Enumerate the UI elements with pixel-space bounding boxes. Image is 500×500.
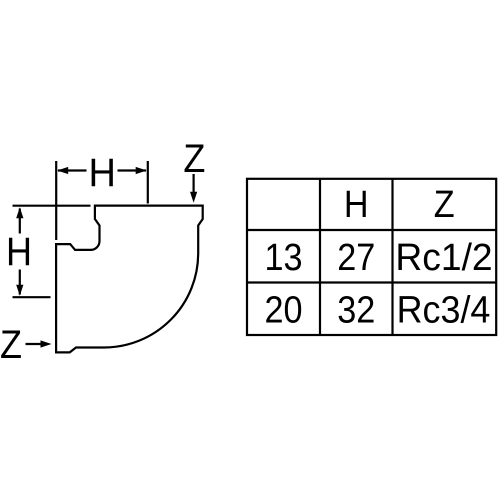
leader line of Z bottom (26, 343, 43, 345)
extension line top face level (horizontal, y=205.7) (13, 205, 91, 207)
arrowhead H left up (16, 207, 23, 218)
dimension line H top, right segment (118, 169, 147, 171)
svg-text:27: 27 (337, 235, 375, 278)
dimension line H top, left segment (58, 169, 87, 171)
svg-text:Z: Z (183, 137, 205, 181)
svg-text:Z: Z (434, 182, 455, 225)
extension line left socket centerline (horizontal, y=297.2) (13, 296, 51, 298)
arrowhead Z top down (190, 192, 197, 203)
extension line left face (vertical, x=56.2) (55, 161, 57, 240)
svg-text:Rc1/2: Rc1/2 (395, 236, 492, 278)
table row line 2 (247, 281, 496, 283)
extension line top socket centerline (vertical, x=147.8) (147, 161, 149, 204)
leader line of Z top (193, 174, 195, 193)
svg-text:Rc3/4: Rc3/4 (397, 289, 491, 331)
svg-text:Z: Z (0, 323, 22, 367)
dimension line H left, lower segment (19, 270, 21, 295)
svg-text:H: H (344, 182, 369, 225)
table column line 2 (391, 179, 393, 335)
arrowhead Z bottom right (41, 340, 52, 347)
elbow fitting body outline (56, 206, 203, 353)
table column line 1 (319, 179, 321, 335)
svg-text:H: H (88, 151, 115, 195)
table outer border (247, 179, 496, 335)
arrowhead H top left (57, 167, 68, 174)
arrowhead H left down (16, 285, 23, 296)
dimension line H left, upper segment (19, 209, 21, 234)
svg-text:32: 32 (337, 288, 375, 331)
arrowhead H top right (136, 167, 147, 174)
table row line 1 (247, 229, 496, 231)
svg-text:13: 13 (264, 235, 302, 278)
svg-text:20: 20 (264, 288, 302, 331)
svg-text:H: H (6, 230, 32, 274)
